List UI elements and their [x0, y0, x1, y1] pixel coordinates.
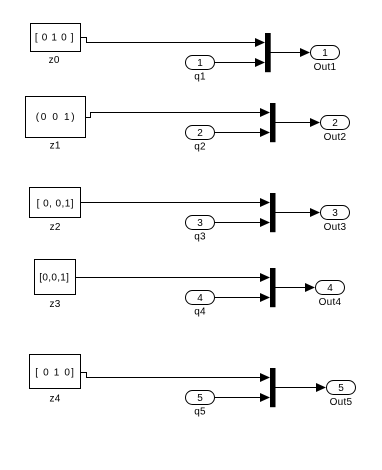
svg-text:1: 1: [322, 48, 328, 59]
outport Out3: [321, 206, 350, 234]
svg-text:z0: z0: [49, 55, 60, 66]
constant z4: [30, 355, 81, 405]
svg-text:5: 5: [338, 383, 344, 394]
svg-text:z4: z4: [49, 394, 60, 405]
wire z2 to mux M3 input 1: [81, 198, 270, 207]
inport q3: [186, 216, 215, 243]
mux M2: [270, 103, 276, 142]
svg-text:Out4: Out4: [319, 297, 342, 308]
svg-text:Out5: Out5: [330, 397, 353, 408]
wire q5 to mux M5 input 2: [215, 393, 270, 402]
svg-text:q1: q1: [194, 72, 206, 83]
wire z4 to mux M5 input 1: [81, 373, 270, 383]
wire mux M5 to Out5: [276, 383, 327, 392]
outport Out2: [321, 116, 350, 144]
svg-text:[ 0, 0,1]: [ 0, 0,1]: [37, 198, 74, 209]
inport q5: [186, 391, 215, 418]
wire mux M4 to Out4: [276, 283, 316, 292]
wire mux M2 to Out2: [276, 118, 321, 127]
constant z0: [31, 24, 81, 67]
svg-text:1: 1: [197, 58, 203, 69]
outport Out4: [316, 281, 345, 309]
svg-text:Out3: Out3: [324, 222, 347, 233]
svg-text:[0,0,1]: [0,0,1]: [39, 273, 69, 284]
svg-text:4: 4: [327, 283, 333, 294]
inport q4: [186, 291, 215, 318]
outport Out1: [311, 46, 340, 74]
inport q1: [186, 56, 215, 83]
svg-text:q3: q3: [194, 232, 206, 243]
constant z1: [26, 97, 86, 152]
wire q4 to mux M4 input 2: [215, 293, 270, 302]
mux M1: [265, 33, 271, 72]
svg-text:q5: q5: [194, 407, 206, 418]
svg-text:5: 5: [197, 393, 203, 404]
wire z3 to mux M4 input 1: [76, 273, 270, 282]
svg-text:3: 3: [332, 208, 338, 219]
svg-text:z1: z1: [50, 141, 61, 152]
inport q2: [186, 126, 215, 153]
mux M3: [270, 193, 276, 232]
wire z1 to mux M2 input 1: [86, 108, 270, 118]
svg-text:[ 0 1 0]: [ 0 1 0]: [35, 368, 74, 379]
svg-text:q2: q2: [194, 142, 206, 153]
svg-text:4: 4: [197, 293, 203, 304]
svg-text:2: 2: [197, 128, 203, 139]
svg-text:[ 0 1 0 ]: [ 0 1 0 ]: [35, 33, 74, 44]
outport Out5: [327, 381, 356, 409]
svg-text:q4: q4: [194, 307, 206, 318]
svg-text:Out1: Out1: [314, 62, 337, 73]
svg-text:z3: z3: [49, 299, 60, 310]
wire q1 to mux M1 input 2: [215, 58, 265, 67]
wire mux M3 to Out3: [276, 208, 321, 217]
wire mux M1 to Out1: [271, 48, 311, 57]
constant z3: [35, 260, 76, 311]
svg-text:2: 2: [332, 118, 338, 129]
wire z0 to mux M1 input 1: [81, 38, 265, 48]
mux M4: [270, 268, 276, 307]
svg-text:3: 3: [197, 218, 203, 229]
svg-text:z2: z2: [50, 222, 61, 233]
constant z2: [30, 188, 81, 234]
svg-text:(0 0 1): (0 0 1): [36, 112, 75, 123]
svg-text:Out2: Out2: [324, 132, 347, 143]
mux M5: [270, 368, 276, 407]
wire q3 to mux M3 input 2: [215, 218, 270, 227]
wire q2 to mux M2 input 2: [215, 128, 270, 137]
